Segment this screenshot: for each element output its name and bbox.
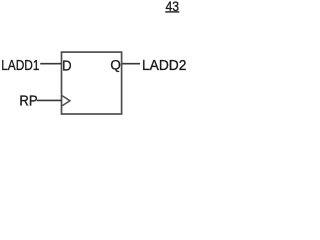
page number 43 <box>165 0 179 14</box>
wire Q to LADD2 <box>122 63 140 65</box>
flip-flop U1 box <box>62 52 122 114</box>
svg-text:D: D <box>62 58 71 74</box>
svg-text:RP: RP <box>19 93 37 109</box>
wire LADD1 to D pin <box>40 63 61 65</box>
svg-text:LADD1: LADD1 <box>1 57 39 73</box>
wire RP to clock pin <box>37 99 62 101</box>
svg-text:LADD2: LADD2 <box>142 57 186 73</box>
svg-text:Q: Q <box>110 57 121 72</box>
clock edge-trigger symbol <box>62 96 70 106</box>
